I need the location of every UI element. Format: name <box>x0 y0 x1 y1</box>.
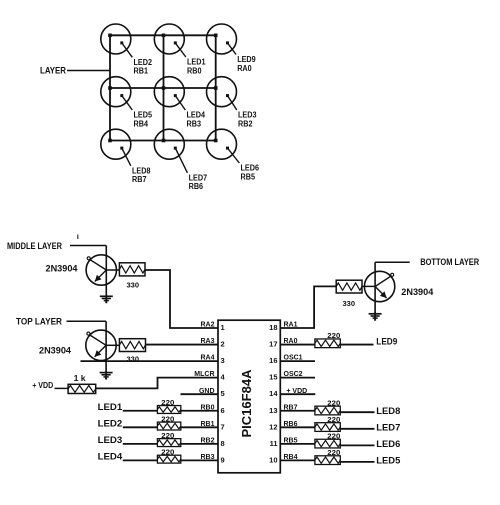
svg-text:5: 5 <box>221 389 225 398</box>
svg-text:LED5: LED5 <box>376 456 400 466</box>
wire MIDDLE LAYER lead <box>70 245 106 247</box>
svg-text:330: 330 <box>127 355 140 364</box>
node junction dot LED1 <box>162 34 166 38</box>
node anode dot LED1 <box>174 41 177 44</box>
svg-text:16: 16 <box>269 356 277 365</box>
wire Q1 base to R1 <box>106 269 119 271</box>
svg-text:220: 220 <box>327 450 340 457</box>
svg-text:LED1: LED1 <box>187 58 206 67</box>
resistor R2 330 <box>119 339 145 364</box>
wire grid column 2 <box>163 35 165 140</box>
svg-text:LAYER: LAYER <box>40 66 66 77</box>
wire pin18 RA1 to R8 <box>280 286 336 328</box>
wire GND pin5 stub <box>181 393 219 395</box>
wire R9 to LED9 <box>340 344 373 346</box>
svg-text:LED8: LED8 <box>132 166 151 175</box>
svg-text:1 k: 1 k <box>74 374 87 383</box>
svg-text:LED3: LED3 <box>238 111 257 120</box>
LED cell LED4/RB3 circle <box>154 77 184 107</box>
svg-text:MIDDLE LAYER: MIDDLE LAYER <box>7 241 62 252</box>
svg-text:220: 220 <box>161 400 174 407</box>
wire leader to LED2 label <box>122 43 133 57</box>
resistor R13 220 <box>315 450 341 465</box>
wire leader to LED6 label <box>228 148 240 163</box>
svg-text:RB6: RB6 <box>189 182 204 191</box>
node junction dot LED7 <box>162 139 166 143</box>
node tick artifact above MIDDLE LAYER lead <box>77 235 79 240</box>
svg-text:LED7: LED7 <box>376 423 400 433</box>
wire leader to LED9 label <box>228 43 237 55</box>
wire leader to LED1 label <box>175 43 186 57</box>
wire Q2 collector-emitter vertical <box>105 321 107 373</box>
resistor R9 220 <box>315 333 341 348</box>
wire grid row 3 <box>110 140 216 142</box>
svg-text:220: 220 <box>327 417 340 424</box>
wire pin10 to resistor <box>280 459 315 461</box>
ground Q2 <box>100 371 113 379</box>
ground Q1 <box>100 294 113 302</box>
svg-text:LED6: LED6 <box>241 164 260 173</box>
svg-text:8: 8 <box>221 439 225 448</box>
svg-text:12: 12 <box>269 422 277 431</box>
svg-text:220: 220 <box>327 333 340 340</box>
svg-text:LED4: LED4 <box>187 111 206 120</box>
wire LAYER lead <box>67 70 110 72</box>
svg-text:RB7: RB7 <box>132 175 147 184</box>
wire pin13 to resistor <box>280 410 315 412</box>
wire Q3 collector to BOTTOM LAYER <box>375 261 410 263</box>
svg-text:PIC16F84A: PIC16F84A <box>240 370 254 438</box>
wire grid row 1 <box>110 34 216 36</box>
wire pin11 to resistor <box>280 443 315 445</box>
svg-text:TOP LAYER: TOP LAYER <box>16 317 62 328</box>
svg-text:+ VDD: + VDD <box>32 381 53 390</box>
svg-text:RB4: RB4 <box>134 119 149 128</box>
wire +VDD to R3 <box>55 387 69 389</box>
resistor R8 330 <box>336 280 362 308</box>
wire resistor to pin8 <box>181 443 218 445</box>
svg-text:14: 14 <box>269 389 278 398</box>
svg-text:9: 9 <box>221 455 225 464</box>
wire TOP LAYER lead <box>67 320 107 322</box>
svg-text:LED6: LED6 <box>376 439 400 449</box>
node junction dot LED4 <box>162 86 166 90</box>
resistor R6 220 <box>157 433 180 447</box>
node anode dot LED2 <box>120 41 123 44</box>
wire resistor to pin7 <box>181 426 218 428</box>
resistor R10 220 <box>315 400 341 415</box>
svg-text:RA0: RA0 <box>237 64 252 73</box>
resistor R3 1k <box>68 374 96 393</box>
svg-text:330: 330 <box>343 299 356 308</box>
wire Q3 collector-emitter vertical <box>374 262 376 313</box>
wire leader to LED4 label <box>175 96 185 110</box>
wire grid column 3 <box>215 35 217 140</box>
svg-text:LED9: LED9 <box>237 55 256 64</box>
LED cell LED2/RB1 circle <box>101 24 131 54</box>
svg-text:2N3904: 2N3904 <box>401 287 434 298</box>
svg-text:RB5: RB5 <box>241 172 256 181</box>
wire Q1 collector-emitter vertical <box>105 246 107 297</box>
svg-text:LED4: LED4 <box>98 451 123 461</box>
wire resistor to pin9 <box>181 459 218 461</box>
node junction dot LED6 <box>214 139 218 143</box>
svg-text:220: 220 <box>327 433 340 440</box>
svg-text:6: 6 <box>221 406 225 415</box>
svg-text:11: 11 <box>270 439 278 448</box>
svg-text:220: 220 <box>161 450 174 457</box>
node anode dot LED3 <box>226 94 229 97</box>
svg-text:2N3904: 2N3904 <box>39 345 72 356</box>
svg-text:RB0: RB0 <box>187 66 202 75</box>
wire LED2 to resistor <box>123 426 158 428</box>
wire LED3 to resistor <box>123 443 158 445</box>
resistor R12 220 <box>315 433 341 448</box>
node anode dot LED6 <box>226 147 229 150</box>
wire leader to LED3 label <box>228 96 237 110</box>
ground Q3 <box>369 312 382 320</box>
svg-text:2: 2 <box>221 340 225 349</box>
svg-text:10: 10 <box>269 455 277 464</box>
svg-text:RB2: RB2 <box>238 119 253 128</box>
wire R2 to pin2 RA3 <box>146 344 219 346</box>
resistor R5 220 <box>157 417 180 431</box>
svg-text:220: 220 <box>161 417 174 424</box>
transistor Q2 2N3904 <box>86 330 116 360</box>
wire grid row 2 <box>110 87 216 89</box>
svg-text:LED3: LED3 <box>98 435 123 445</box>
wire resistor to LED8 <box>340 411 374 413</box>
wire LED1 to resistor <box>123 410 158 412</box>
wire pin17 RA0 to R9 <box>280 344 315 346</box>
svg-text:7: 7 <box>221 422 225 431</box>
svg-text:LED2: LED2 <box>98 418 123 428</box>
LED cell LED1/RB0 circle <box>154 24 184 54</box>
svg-text:3: 3 <box>221 356 225 365</box>
wire OSC2 pin15 stub <box>280 377 315 379</box>
wire R3 to pin4 MLCR <box>96 378 218 389</box>
node anode dot LED4 <box>174 94 177 97</box>
svg-text:BOTTOM LAYER: BOTTOM LAYER <box>420 257 479 268</box>
LED cell LED5/RB4 circle <box>101 77 131 107</box>
transistor Q1 2N3904 <box>86 255 116 285</box>
resistor R7 220 <box>157 450 180 464</box>
node junction dot LED2 <box>108 34 112 38</box>
svg-text:2N3904: 2N3904 <box>46 264 79 275</box>
svg-text:RB3: RB3 <box>187 119 202 128</box>
svg-text:LED5: LED5 <box>134 111 153 120</box>
wire +VDD pin14 stub <box>280 393 315 395</box>
svg-text:1: 1 <box>221 323 225 332</box>
node anode dot LED5 <box>120 94 123 97</box>
wire RA4 pin3 stub <box>81 360 219 362</box>
wire OSC1 pin16 stub <box>280 360 315 362</box>
wire resistor to LED5 <box>340 461 374 463</box>
svg-text:LED1: LED1 <box>98 402 123 412</box>
svg-text:17: 17 <box>269 340 277 349</box>
node junction dot LED3 <box>214 86 218 90</box>
svg-text:LED2: LED2 <box>134 58 153 67</box>
wire pin12 to resistor <box>280 426 315 428</box>
wire leader to LED5 label <box>122 96 133 110</box>
transistor Q3 2N3904 <box>364 271 394 301</box>
svg-text:18: 18 <box>269 323 277 332</box>
node junction dot LED5 <box>108 86 112 90</box>
node anode dot LED9 <box>226 41 229 44</box>
wire R8 to Q3 base <box>362 285 375 287</box>
svg-text:RB1: RB1 <box>134 67 149 76</box>
wire resistor to pin6 <box>181 410 218 412</box>
resistor R4 220 <box>157 400 180 413</box>
op IC U1 PIC16F84A body <box>218 320 280 473</box>
svg-text:13: 13 <box>269 406 277 415</box>
node anode dot LED8 <box>120 147 123 150</box>
wire leader to LED7 label <box>175 148 187 173</box>
svg-text:LED9: LED9 <box>376 336 397 346</box>
wire leader to LED8 label <box>122 148 131 166</box>
LED cell LED6/RB5 circle <box>207 129 237 159</box>
wire LED4 to resistor <box>123 459 158 461</box>
svg-text:220: 220 <box>161 433 174 440</box>
resistor R1 330 <box>119 263 145 290</box>
LED cell LED9/RA0 circle <box>207 24 237 54</box>
svg-text:15: 15 <box>269 373 277 382</box>
LED cell LED3/RB2 circle <box>207 77 237 107</box>
node anode dot LED7 <box>174 147 177 150</box>
svg-text:330: 330 <box>127 281 140 290</box>
LED cell LED7/RB6 circle <box>154 129 184 159</box>
node junction dot LED8 <box>108 139 112 143</box>
wire R1 to pin1 RA2 <box>145 270 218 328</box>
resistor R11 220 <box>315 417 341 432</box>
node junction dot LED9 <box>214 34 218 38</box>
svg-text:220: 220 <box>327 400 340 407</box>
wire resistor to LED6 <box>340 444 374 446</box>
LED cell LED8/RB7 circle <box>101 129 131 159</box>
svg-text:LED7: LED7 <box>189 173 208 182</box>
wire resistor to LED7 <box>340 428 374 430</box>
wire Q2 base to R2 <box>106 344 119 346</box>
wire grid column 1 <box>109 35 111 140</box>
svg-text:LED8: LED8 <box>376 406 400 416</box>
